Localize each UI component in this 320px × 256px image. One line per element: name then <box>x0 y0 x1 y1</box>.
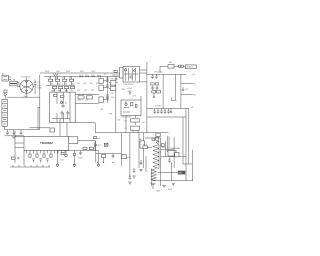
wire bottom bus ext <box>75 122 95 124</box>
svg-text:C5: C5 <box>70 90 72 92</box>
svg-text:R71: R71 <box>77 90 80 92</box>
svg-text:1N4: 1N4 <box>90 83 93 85</box>
wire drop d2 <box>57 82 59 86</box>
ground G8 <box>139 169 143 171</box>
capacitor C28 <box>17 157 19 159</box>
resistor R27 <box>130 103 133 106</box>
resistor R22 <box>156 137 159 140</box>
capacitor C32 <box>50 128 55 132</box>
wire stack top right <box>7 96 40 98</box>
diode block D14 <box>157 90 161 93</box>
resistor R23 <box>161 144 164 147</box>
IC U3 pin 1 <box>26 150 28 153</box>
node dots <box>97 162 98 163</box>
capacitor C7 <box>87 96 93 99</box>
resistor R1 <box>49 79 53 81</box>
svg-text:TH1: TH1 <box>169 62 173 64</box>
wire IC right out <box>78 140 95 142</box>
svg-text:D12: D12 <box>98 145 101 147</box>
wire X1 riser <box>121 133 123 166</box>
wire drop x95 <box>94 123 96 133</box>
wire T1 secondary out <box>109 82 111 84</box>
wire branch x38 <box>37 108 39 130</box>
wire drop x115 <box>115 85 117 133</box>
wire right bus <box>147 73 186 75</box>
svg-text:D805 E801: D805 E801 <box>154 72 163 74</box>
svg-text:C207: C207 <box>60 160 64 162</box>
capacitor C36 <box>133 168 135 170</box>
connector J1 pins <box>3 76 7 78</box>
resistor R28 <box>135 104 137 107</box>
wire lower mid bus <box>96 153 122 155</box>
zener D11 <box>182 87 184 89</box>
resistor R25 <box>155 83 158 85</box>
svg-text:C85: C85 <box>100 109 103 111</box>
wire drop x146 <box>145 156 147 172</box>
IC U3 pin 8 <box>50 150 52 153</box>
svg-text:TDA8842: TDA8842 <box>40 141 53 145</box>
label plate FBT <box>178 171 186 175</box>
rail vertical x175.7 <box>175 74 177 100</box>
wire drop e1 <box>54 89 56 92</box>
capacitor C11 <box>152 86 154 88</box>
rail x165.3 <box>164 141 166 157</box>
resistor R24 <box>151 83 154 85</box>
capacitor C31 <box>170 109 172 112</box>
svg-text:C82: C82 <box>111 93 114 95</box>
wire drop x95.8 <box>95 141 97 163</box>
wire relay drops <box>132 130 134 133</box>
IC U1 STR regulator <box>123 67 140 83</box>
svg-text:16: 16 <box>194 94 196 96</box>
IC U1 inner q1 <box>134 70 136 72</box>
IC U3 pin 7 <box>47 150 49 153</box>
rail vertical x146.9 <box>146 62 148 133</box>
wire drop x60 <box>59 123 61 137</box>
capacitor C5 <box>61 111 63 113</box>
wire bridge in <box>17 86 20 88</box>
resistor R4 <box>70 79 74 81</box>
resistor R15 <box>43 154 45 157</box>
capacitor C30 <box>115 77 117 79</box>
wire drop d1 <box>50 82 52 86</box>
svg-text:10u: 10u <box>65 90 68 92</box>
standby block U5 <box>121 100 141 116</box>
svg-text:R6: R6 <box>125 121 127 123</box>
wire bottom right bus <box>152 180 193 182</box>
line filter L1 <box>10 84 17 86</box>
rail vertical x188.8 <box>188 109 190 165</box>
svg-text:C613: C613 <box>91 71 95 73</box>
connector J3 degauss <box>185 65 196 69</box>
flyback T2 left rail <box>151 169 153 187</box>
wire filter to bridge <box>17 81 19 83</box>
ground bus tick 7 <box>48 165 50 167</box>
IC U3 aux block <box>69 137 78 144</box>
wire R1 lead <box>50 76 52 79</box>
svg-text:D63: D63 <box>77 83 80 85</box>
diode block D13 <box>152 90 156 93</box>
capacitor C17 <box>157 109 159 112</box>
svg-text:F1 4A: F1 4A <box>10 79 16 82</box>
rail vertical x186 <box>185 109 187 181</box>
degauss coil L3 b <box>181 65 184 68</box>
wire IC out bottom <box>140 81 147 83</box>
svg-text:R88: R88 <box>109 114 112 116</box>
diode D1 <box>80 75 82 77</box>
svg-text:R7: R7 <box>125 128 127 130</box>
ground bus <box>10 166 50 168</box>
resistor R19 <box>102 155 106 158</box>
svg-text:D81: D81 <box>111 79 114 81</box>
ground bus tick 6 <box>42 165 44 167</box>
transistor Q1 <box>60 101 62 103</box>
IC U3 pin 12 <box>64 150 66 153</box>
transistor Q4 <box>125 103 127 105</box>
resistor R16 <box>50 154 52 157</box>
svg-text:R809: R809 <box>122 89 126 91</box>
snubber box S1 <box>99 78 103 83</box>
svg-text:C61: C61 <box>58 84 61 86</box>
svg-text:4n7: 4n7 <box>65 84 68 86</box>
resistor R11 <box>78 96 84 99</box>
wire row y85 <box>46 84 75 86</box>
flyback T2 primary core bar <box>158 145 160 169</box>
wire Q10 lead <box>65 151 67 155</box>
ground bus tick 4 <box>30 165 32 167</box>
standby internal <box>123 111 130 113</box>
capacitor C1 main filter <box>34 82 37 84</box>
wire fb label <box>158 171 178 173</box>
ground G5 <box>128 181 132 183</box>
wire primary top <box>75 94 99 96</box>
wire L <box>8 76 11 78</box>
wire Q7 down <box>74 156 76 164</box>
wire R3 lead <box>64 76 66 79</box>
svg-text:R449: R449 <box>168 189 172 191</box>
wire primary bottom <box>75 102 99 104</box>
capacitor C6 <box>67 111 69 113</box>
wire degauss riser <box>160 66 168 73</box>
resistor R3 <box>63 79 67 81</box>
fuse F1 <box>10 81 17 83</box>
IC U1 inner r2 <box>130 76 132 78</box>
resistor R2 <box>56 79 60 81</box>
diode D10 <box>5 93 7 96</box>
wire IC input <box>112 74 120 76</box>
resistor R7 <box>65 86 69 88</box>
wire drop e3 <box>66 89 68 92</box>
wire mid bus <box>95 132 168 134</box>
svg-text:R612: R612 <box>80 71 84 73</box>
bridge rectifier B1 <box>20 80 33 93</box>
ground pad G3 <box>73 164 75 166</box>
capacitor C25 <box>129 175 131 178</box>
connector J4 AV <box>140 141 144 148</box>
capacitor C13c <box>153 93 155 96</box>
resistor R29 <box>61 153 64 155</box>
wire y164 <box>183 163 192 165</box>
svg-text:Q4: Q4 <box>124 102 126 104</box>
wire R4 lead <box>71 76 73 79</box>
wire bridge out <box>33 86 35 88</box>
rail vertical x163.1 <box>162 74 164 108</box>
diode D3 <box>92 75 94 77</box>
svg-text:R26: R26 <box>97 138 100 140</box>
resistor R8 <box>71 86 75 88</box>
svg-text:R66: R66 <box>71 84 74 86</box>
flyback primary riser pair <box>167 136 169 152</box>
wire drop d3 <box>64 82 66 86</box>
diode D5 string <box>56 92 58 104</box>
svg-text:STR-F6654: STR-F6654 <box>123 84 134 86</box>
connector J2 pin 1 <box>2 99 7 104</box>
IC U3 pin 9 <box>54 150 56 153</box>
wire second bus <box>147 116 186 118</box>
wire G2 drop <box>56 151 58 165</box>
capacitor C20 <box>168 109 170 112</box>
diode D4 <box>98 75 100 77</box>
capacitor C8 <box>129 92 131 94</box>
IC U3 left pin rail <box>14 131 16 163</box>
diode D2 <box>86 75 88 77</box>
capacitor C27 <box>151 182 156 184</box>
wire fb top <box>145 137 161 139</box>
svg-text:C72: C72 <box>185 89 188 91</box>
wire audio row <box>57 150 98 152</box>
ground bus tick 1 <box>12 165 14 167</box>
IC U3 pin 11 <box>61 150 63 153</box>
ground G6 <box>162 185 166 187</box>
wire fb out2 <box>161 156 186 158</box>
capacitor C18 <box>161 109 163 112</box>
svg-text:45: 45 <box>194 83 196 85</box>
transistor Q10 <box>65 154 68 157</box>
svg-text:R73: R73 <box>78 100 81 102</box>
capacitor C14 <box>13 130 15 133</box>
wire bus second <box>44 75 120 77</box>
ground bus tick 2 <box>18 165 20 167</box>
driver U4 <box>156 133 160 136</box>
svg-text:+B115: +B115 <box>127 91 134 93</box>
wire branch top <box>38 107 40 109</box>
wire drop x129.9 <box>129 133 131 177</box>
IC U3 pin 2 <box>29 150 31 153</box>
resistor R21 <box>114 70 117 72</box>
capacitor C10 <box>156 74 158 76</box>
resistor R9 <box>54 94 57 96</box>
wire Q7 lead <box>74 151 76 154</box>
rail vertical x171.6 <box>171 162 173 181</box>
resistor R26 <box>94 137 97 139</box>
connector J5 <box>143 146 147 149</box>
rail vertical x174.1 <box>173 137 175 168</box>
relay RL1 <box>131 119 140 122</box>
capacitor C16 <box>154 109 156 112</box>
svg-text:R210: R210 <box>79 158 83 160</box>
diode block U6 <box>168 151 176 157</box>
wire top bus <box>40 72 147 74</box>
AC input connector J1 <box>2 75 8 81</box>
svg-text:C77: C77 <box>85 100 88 102</box>
resistor R18 <box>90 147 94 149</box>
relay RL2 <box>131 126 140 130</box>
connector J2 pin 5 <box>2 117 7 122</box>
ground G7 <box>172 182 176 184</box>
wire R19 drop <box>103 158 105 163</box>
wire snubber internal <box>52 118 70 120</box>
connector J2 pin 4 <box>2 113 7 118</box>
wire drop e2 <box>60 89 62 92</box>
svg-text:B801: B801 <box>24 96 28 98</box>
wire TH1 to coil <box>174 65 178 67</box>
diode D9a <box>110 81 116 86</box>
IC U3 pin 6 <box>43 150 45 153</box>
diode D12 <box>95 144 97 147</box>
capacitor C23 <box>39 158 41 160</box>
resistor R13 <box>29 154 31 157</box>
resistor R10 <box>61 95 64 97</box>
wire T1 taps <box>103 80 106 82</box>
capacitor C19 <box>164 109 166 112</box>
wire coil to J3 <box>184 65 186 67</box>
connector J2 pin 2 <box>2 104 7 109</box>
svg-text:C12: C12 <box>51 90 54 92</box>
svg-text:C443: C443 <box>156 191 160 193</box>
transformer T1 windings <box>106 77 109 79</box>
resistor R17 <box>83 147 87 149</box>
svg-text:2k2: 2k2 <box>51 84 54 86</box>
wire J2 to bus <box>5 126 40 129</box>
svg-text:C811: C811 <box>133 96 137 98</box>
degauss coil L3 a <box>178 65 181 68</box>
diode D9b <box>110 86 116 90</box>
ground bus tick 3 <box>24 165 26 167</box>
transistor Q7 <box>73 153 76 156</box>
svg-text:R601: R601 <box>45 71 49 73</box>
wire drop d4 <box>71 82 73 86</box>
wire R23 out <box>161 146 165 148</box>
capacitor C37 <box>80 151 82 153</box>
svg-text:L602: L602 <box>56 71 60 73</box>
wire G4 drop <box>97 151 99 165</box>
ground pad G2 <box>56 164 58 166</box>
IC U3 pin 10 <box>57 150 59 153</box>
inline choke L2 <box>53 74 58 76</box>
wire tap y94.4 <box>181 93 193 95</box>
capacitor C21 <box>12 157 15 160</box>
rail vertical x192.5 <box>192 150 194 181</box>
capacitor C13b <box>7 130 9 133</box>
capacitor C12 <box>156 86 158 88</box>
svg-text:Q1: Q1 <box>65 102 67 104</box>
wire drop x141 vcc <box>140 96 142 100</box>
driver Q9 base res <box>152 138 155 141</box>
saw filter Z1 <box>104 143 108 146</box>
flyback T2 core <box>160 138 162 186</box>
svg-text:1k: 1k <box>60 100 62 102</box>
rail vertical x183 <box>182 117 184 164</box>
svg-text:L5 LINE: L5 LINE <box>154 106 162 108</box>
posistor TH1 <box>168 65 174 69</box>
wire stub y148 <box>171 147 181 149</box>
wire driver out <box>147 146 152 148</box>
wire seg y127.8 <box>30 127 51 129</box>
wire IC out top <box>140 69 147 71</box>
wire tap y83.4 <box>181 82 193 84</box>
capacitor C24 <box>46 158 48 160</box>
crystal X1 <box>122 155 127 159</box>
rail vertical x180.9 <box>180 74 182 108</box>
IC U1 inner r1 <box>125 69 127 71</box>
wire N <box>8 78 11 80</box>
IC U1 internal pins <box>125 68 127 81</box>
wire drop x143.5 <box>143 133 145 168</box>
diode D8 <box>99 97 103 103</box>
transistor Q9 <box>157 141 159 143</box>
svg-text:DEGAUS: DEGAUS <box>186 66 194 69</box>
resistor R6 <box>59 86 63 88</box>
svg-text:R05: R05 <box>58 90 61 92</box>
flyback T2 primary winding <box>153 145 159 169</box>
svg-text:D601: D601 <box>66 71 70 73</box>
node B+ rail vertical <box>39 75 41 130</box>
ground G9 <box>132 175 136 177</box>
wire drop x67 <box>66 123 68 137</box>
resistor R14 <box>36 154 38 157</box>
svg-text:C73: C73 <box>84 90 87 92</box>
ground bus tick 5 <box>36 165 38 167</box>
wire right mid bus <box>147 108 189 110</box>
flyback T2 secondary winding <box>151 169 157 181</box>
resistor R20 <box>175 153 179 157</box>
transformer T1 core <box>106 76 108 103</box>
IC U1 left pin block <box>120 68 124 79</box>
ground pad G4 <box>97 164 99 166</box>
capacitor C22 <box>32 158 34 160</box>
wire IC left edge drop <box>23 150 25 165</box>
wire seg y135.8 <box>5 135 24 137</box>
svg-text:22u: 22u <box>111 97 114 99</box>
capacitor C35 <box>140 160 142 162</box>
ground G1 <box>12 135 16 137</box>
wire drop x139 <box>138 133 140 168</box>
wire stub y97.5 <box>171 98 176 101</box>
IC U3 pin 3 <box>33 150 35 153</box>
connector J2 pin 3 <box>2 108 7 113</box>
snubber box S2 <box>99 85 103 91</box>
IC U3 TDA8842 <box>24 136 69 150</box>
capacitor C9 <box>152 74 154 76</box>
svg-text:C64: C64 <box>83 83 86 85</box>
diode D6 string <box>63 92 65 104</box>
capacitor C15 <box>20 130 22 133</box>
resistor R5 <box>53 86 57 88</box>
capacitor C26 <box>169 158 171 161</box>
snubber enclosure <box>50 92 75 123</box>
svg-text:D82: D82 <box>142 122 145 124</box>
IC U3 pin 5 <box>40 150 42 153</box>
capacitor C33 <box>112 154 114 156</box>
wire R2 lead <box>57 76 59 79</box>
connector J2 pin 6 <box>2 122 7 127</box>
zener D9 <box>4 90 7 92</box>
wire fb out1 <box>161 149 174 151</box>
diode D7 string <box>69 92 71 123</box>
wire bridge vertical <box>26 77 28 97</box>
IC U3 pin 4 <box>36 150 38 153</box>
transistor Q2 <box>62 105 64 107</box>
